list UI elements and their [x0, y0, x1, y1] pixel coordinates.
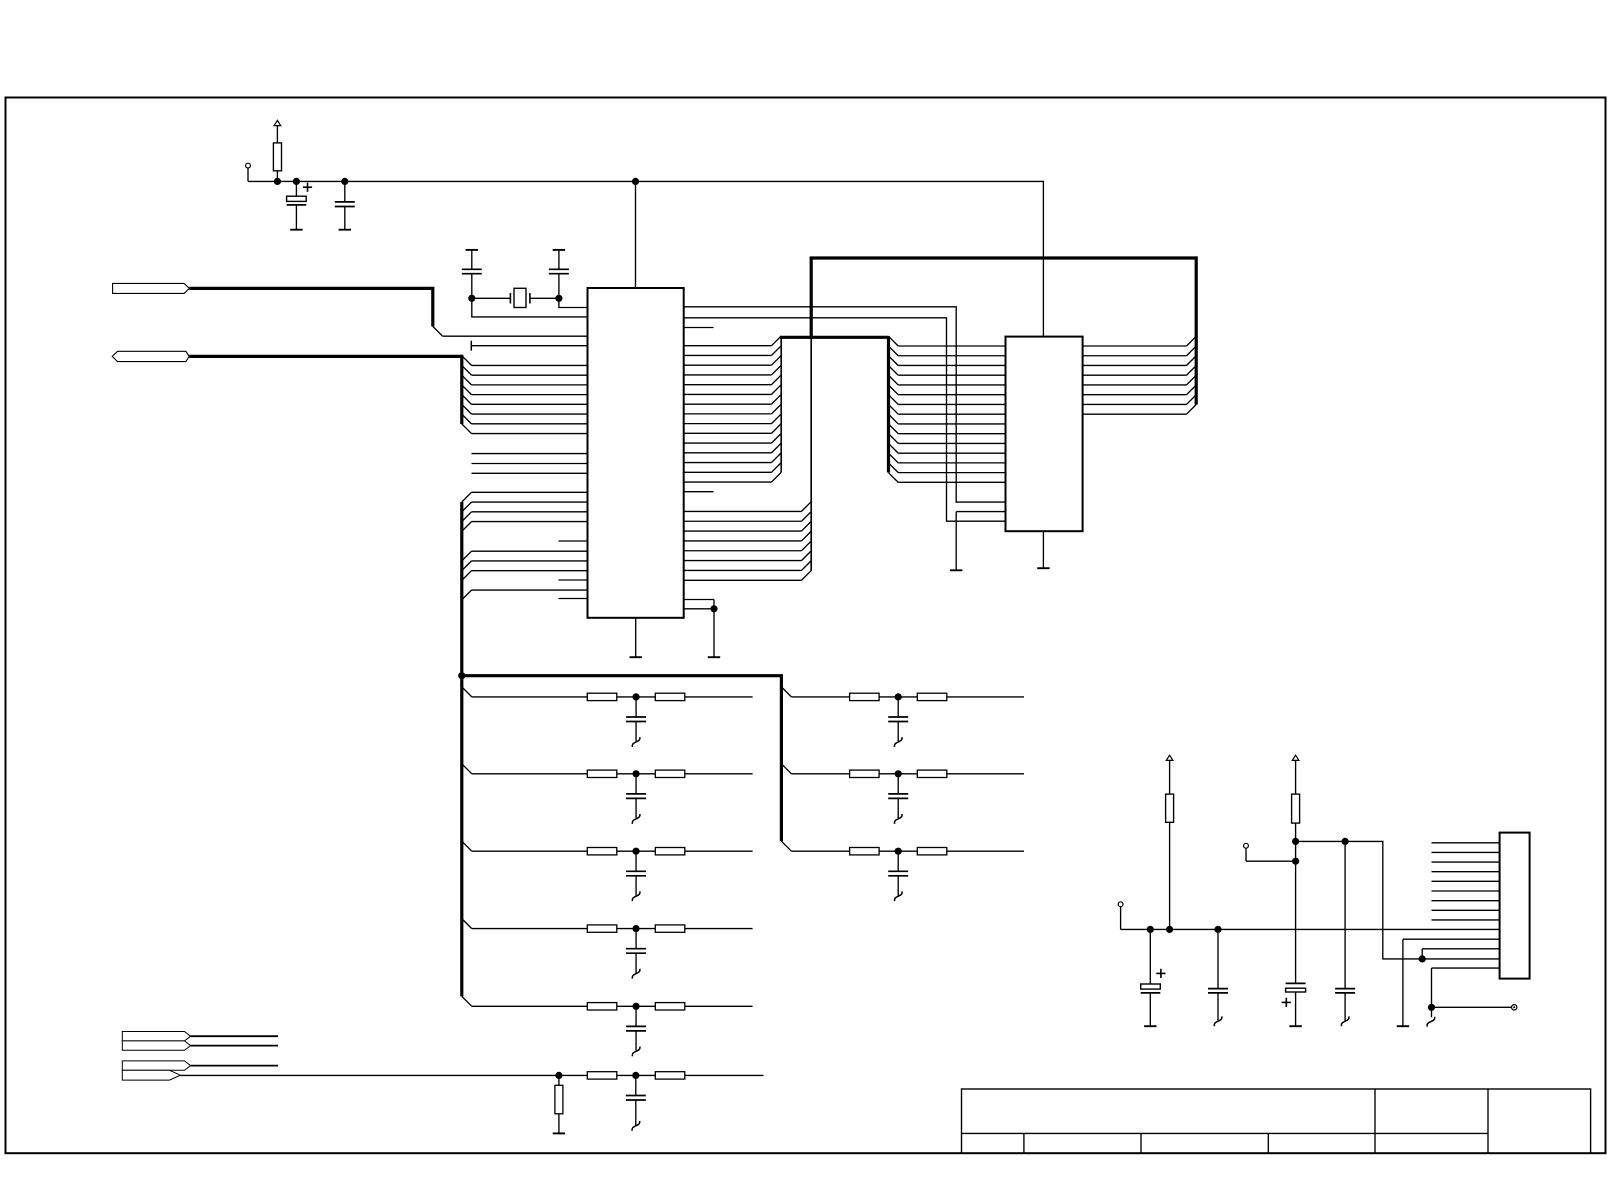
wire P1 pin8: [1432, 909, 1500, 911]
capacitor C L4: [626, 929, 646, 973]
wire U1 right stub bottom: [684, 491, 714, 493]
wire VCC rail: [248, 181, 1043, 336]
wire data bus bit7 U2 side: [1083, 413, 1187, 415]
node P1 pin14 gnd: [1428, 1004, 1435, 1011]
wire row L1: [462, 687, 753, 697]
wire row L2: [462, 764, 753, 774]
net flag TXD: [112, 351, 189, 361]
wire addr bus bit4 U2 side: [889, 375, 899, 385]
wire addr bus bit10 U1 side: [684, 442, 772, 444]
node row L5: [632, 1003, 639, 1010]
wire busA bit7: [462, 424, 472, 434]
capacitor C17: [1335, 841, 1355, 1020]
resistor R15: [1292, 794, 1300, 983]
resistor R L4b: [655, 925, 685, 932]
wire data bus bit1 U2 side: [1083, 355, 1187, 357]
wire addr bus bit11 U1 side: [684, 452, 772, 454]
wire U1 left stub 0: [558, 540, 587, 542]
node row R3: [895, 848, 902, 855]
capacitor C2: [335, 181, 355, 229]
ground U1: [630, 656, 642, 658]
bus data horizontal top: [810, 256, 1197, 259]
wire P1 pin7: [1432, 900, 1500, 902]
wire addr bus bit8 U1 side: [684, 423, 772, 425]
wire addr bus bit6 U2 side: [889, 395, 899, 405]
wire addr bus bit0 U1 side: [684, 345, 772, 347]
resistor R1: [273, 143, 281, 182]
ground C17: [1341, 1016, 1349, 1026]
resistor R R3a: [850, 848, 880, 855]
net flag SIG1: [122, 1032, 190, 1041]
wire data bus bit0 U2 side: [1083, 345, 1187, 347]
node row L4: [632, 925, 639, 932]
node U1 gnd join: [710, 605, 717, 612]
capacitor C L3: [626, 851, 646, 895]
node VCC junction C2: [341, 178, 348, 185]
wire SIG3: [191, 1065, 278, 1067]
bus addr vertical right: [887, 336, 890, 472]
node VCC junction U1 pin: [632, 178, 639, 185]
node VCC junction R1: [274, 178, 281, 185]
wire data bus bit6 U1 side: [684, 569, 802, 571]
ground P1 pin14: [1427, 1017, 1435, 1027]
net flag SIG3: [122, 1061, 190, 1070]
wire P1 pin5: [1432, 880, 1500, 882]
resistor R L1a: [587, 693, 617, 700]
ground U2 left: [950, 569, 962, 571]
wire U1 left stub 2: [558, 598, 587, 600]
resistor R R1a: [850, 693, 880, 700]
node row R1: [895, 693, 902, 700]
IC U1: [588, 288, 684, 618]
resistor R R3b: [917, 848, 947, 855]
ground row R2: [894, 814, 902, 824]
node row6 divider: [555, 1072, 562, 1079]
resistor R R2b: [917, 770, 947, 777]
wire P1 pin2: [1432, 851, 1500, 853]
node P1 pin12 join: [1419, 955, 1426, 962]
wire P1 pin6: [1432, 890, 1500, 892]
wire addr bus bit14 U2 side: [889, 473, 899, 483]
wire busB bit4: [462, 551, 472, 561]
node AVCC2 b: [1292, 858, 1299, 865]
ground row6: [632, 1121, 640, 1131]
wire U2 GND pin bottom: [1042, 531, 1044, 568]
wire data bus bit3 U2 side: [1083, 374, 1187, 376]
terminal TP4: [1512, 1005, 1517, 1010]
capacitor C14: [1141, 929, 1166, 1026]
resistor R R1b: [917, 693, 947, 700]
wire data bus bit2 U1 side: [684, 530, 802, 532]
node bus R14: [1166, 926, 1173, 933]
resistor R L1b: [655, 693, 685, 700]
wire XTAL2 to U1: [559, 298, 588, 307]
wire addr bus bit7 U1 side: [684, 413, 772, 415]
wire SIG2: [191, 1045, 278, 1047]
ground U2: [1037, 567, 1049, 569]
wire addr bus bit12 U1 side: [684, 462, 772, 464]
resistor R L3b: [655, 848, 685, 855]
power arrow AVCC1: [1166, 755, 1173, 794]
wire addr bus bit4 U1 side: [684, 384, 772, 386]
ground C3 top: [466, 249, 478, 251]
wire busA bit0: [462, 356, 472, 366]
resistor R7 pulldown: [555, 1075, 563, 1133]
wire P1 pin1: [1432, 842, 1500, 844]
ground row R1: [894, 737, 902, 747]
wire busB bit5: [462, 561, 472, 571]
wire row R2: [781, 764, 1024, 774]
wire data bus bit6 U2 side: [1083, 403, 1187, 405]
wire data bus bit0 U1 side: [684, 510, 802, 512]
wire U1 GND pin: [635, 618, 637, 657]
title block: [962, 1089, 1591, 1153]
resistor R6a: [587, 1072, 617, 1079]
wire addr bus bit3 U2 side: [889, 366, 899, 376]
bus B vertical: [460, 502, 463, 996]
wire addr bus bit8 U2 side: [889, 414, 899, 424]
wire addr bus bit14 U1 side: [684, 481, 772, 483]
wire addr bus bit10 U2 side: [889, 434, 899, 444]
wire data bus bit4 U1 side: [684, 550, 802, 552]
wire P1 pin9: [1432, 919, 1500, 921]
resistor R L2a: [587, 770, 617, 777]
terminal TP3: [1118, 902, 1123, 930]
node row6 mid: [632, 1072, 639, 1079]
bus addr vertical left: [780, 337, 782, 472]
ground C14: [1144, 1025, 1156, 1027]
wire row L5: [462, 996, 753, 1006]
wire addr bus bit13 U1 side: [684, 471, 772, 473]
wire SIG1: [191, 1035, 278, 1037]
resistor R L5b: [655, 1003, 685, 1010]
wire U1 to U2 ctrl A: [684, 307, 1006, 502]
wire busA bit5: [462, 404, 472, 414]
terminal TP1: [246, 163, 251, 181]
wire data bus bit2 U2 side: [1083, 364, 1187, 366]
wire addr bus bit5 U2 side: [889, 385, 899, 395]
resistor R R2a: [850, 770, 880, 777]
wire data bus bit3 U1 side: [684, 540, 802, 542]
capacitor C R3: [888, 851, 908, 895]
wire XTAL1 to U1: [472, 298, 588, 317]
wire addr bus bit9 U1 side: [684, 432, 772, 434]
wire busA bit3: [462, 385, 472, 395]
capacitor C row6: [626, 1075, 646, 1125]
wire AVCC2 to P1: [1296, 841, 1500, 959]
wire addr bus bit0 U2 side: [889, 336, 899, 346]
node row R2: [895, 770, 902, 777]
bus data vertical thick top: [810, 258, 813, 339]
wire data bus bit5 U1 side: [684, 560, 802, 562]
capacitor C R2: [888, 774, 908, 818]
wire busB bit7: [462, 590, 472, 600]
bus data vertical right: [1195, 256, 1198, 404]
ground row L4: [632, 969, 640, 979]
wire addr bus bit13 U2 side: [889, 463, 899, 473]
wire P1 pin11 gnd: [1403, 939, 1500, 1026]
wire busB bit6: [462, 571, 472, 581]
node XTAL2: [555, 295, 562, 302]
node AVCC2 a: [1292, 838, 1299, 845]
ground row L1: [632, 737, 640, 747]
ground P1 pin11: [1397, 1025, 1409, 1027]
terminal TP2: [1244, 843, 1296, 861]
wire addr bus bit11 U2 side: [889, 443, 899, 453]
wire analog bus: [1121, 928, 1500, 930]
wire row L3: [462, 841, 753, 851]
ground row L5: [632, 1047, 640, 1057]
node term bus junction: [458, 672, 465, 679]
crystal Y1: [472, 288, 559, 307]
net flag SIG2: [122, 1041, 190, 1050]
net flag RXD: [113, 283, 190, 293]
power arrow VCC: [274, 120, 281, 142]
wire data bus bit7 U1 side: [684, 579, 802, 581]
capacitor C L2: [626, 774, 646, 818]
wire U1 gnd pins right: [684, 600, 714, 658]
resistor R L3a: [587, 848, 617, 855]
wire addr bus bit2 U2 side: [889, 356, 899, 366]
wire data bus bit1 U1 side: [684, 520, 802, 522]
ground C1: [290, 229, 302, 231]
wire P1 pin4: [1432, 871, 1500, 873]
wire data bus bit4 U2 side: [1083, 384, 1187, 386]
capacitor C L5: [626, 1006, 646, 1050]
ground U1 right: [708, 656, 720, 658]
capacitor C4: [549, 250, 569, 298]
capacitor C R1: [888, 697, 908, 741]
wire busA bit1: [462, 365, 472, 375]
node bus C15: [1214, 926, 1221, 933]
wire row R3: [781, 841, 1024, 851]
wire U1 left stub 1: [558, 579, 587, 581]
ground row R3: [894, 891, 902, 901]
ground C2: [339, 229, 351, 231]
node VCC junction C1: [293, 178, 300, 185]
ground row L2: [632, 814, 640, 824]
resistor R L2b: [655, 770, 685, 777]
bus A vertical: [460, 355, 463, 424]
wire addr bus bit5 U1 side: [684, 393, 772, 395]
bus term horizontal: [462, 674, 782, 677]
wire U1 NC pin 0: [472, 453, 588, 455]
bus term right vertical: [780, 674, 783, 841]
power arrow AVCC2: [1292, 755, 1299, 794]
wire addr bus bit3 U1 side: [684, 374, 772, 376]
resistor R L5a: [587, 1003, 617, 1010]
node XTAL1: [468, 295, 475, 302]
wire row R1: [781, 687, 1024, 697]
ground C4 top: [553, 249, 565, 251]
wire U1 NC pin 2: [472, 472, 588, 474]
wire busB bit2: [462, 512, 472, 522]
wire P1 pin3: [1432, 861, 1500, 863]
ground row L3: [632, 891, 640, 901]
wire P1 pin14: [1432, 968, 1515, 1017]
capacitor C15: [1208, 929, 1228, 1020]
wire busA bit6: [462, 414, 472, 424]
capacitor C3: [462, 250, 482, 298]
wire addr bus bit12 U2 side: [889, 453, 899, 463]
wire P1 pin12: [1422, 949, 1499, 959]
connector P1: [1500, 833, 1530, 979]
node C17 tap: [1342, 838, 1349, 845]
wire U2 gnd pin left: [956, 512, 1005, 571]
wire busB bit1: [462, 502, 472, 512]
net flag SIG4: [122, 1070, 180, 1080]
ground C15: [1214, 1016, 1222, 1026]
wire addr bus bit9 U2 side: [889, 424, 899, 434]
wire addr bus bit1 U1 side: [684, 354, 772, 356]
bus addr horizontal: [780, 336, 889, 339]
wire addr bus bit6 U1 side: [684, 403, 772, 405]
wire RXD: [189, 288, 587, 336]
wire busA bit4: [462, 395, 472, 405]
capacitor C L1: [626, 697, 646, 741]
IC U2: [1006, 337, 1083, 532]
capacitor C1: [287, 181, 313, 229]
node bus C14: [1147, 926, 1154, 933]
wire busB bit0: [462, 492, 472, 502]
wire U1 VCC pin: [635, 181, 637, 288]
wire busA bit2: [462, 375, 472, 385]
resistor R6b: [655, 1072, 685, 1079]
wire data bus bit5 U2 side: [1083, 394, 1187, 396]
wire addr bus bit7 U2 side: [889, 404, 899, 414]
node row L3: [632, 848, 639, 855]
resistor R14: [1166, 794, 1174, 929]
wire addr bus bit2 U1 side: [684, 364, 772, 366]
wire row 6: [180, 1074, 763, 1076]
ground R7: [553, 1132, 565, 1134]
wire U1 NC pin 1: [472, 463, 588, 465]
wire U1 right stub top: [684, 327, 714, 329]
wire U1 to U2 ctrl B: [684, 318, 1006, 521]
wire busB bit3: [462, 522, 472, 532]
resistor R L4a: [587, 925, 617, 932]
capacitor C16: [1282, 983, 1306, 1026]
ground C16: [1289, 1025, 1301, 1027]
bus data vertical: [810, 337, 812, 570]
wire row L4: [462, 919, 753, 929]
wire addr bus bit1 U2 side: [889, 346, 899, 356]
node row L2: [632, 770, 639, 777]
wire TXD bus A feed: [189, 355, 462, 358]
wire NC tick pin: [471, 341, 587, 351]
node row L1: [632, 693, 639, 700]
